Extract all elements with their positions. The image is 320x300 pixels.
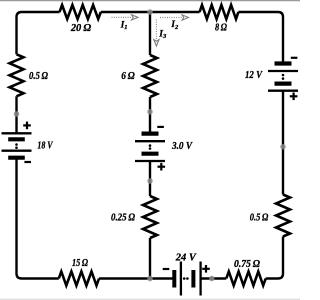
svg-text:0.5 Ω: 0.5 Ω (29, 70, 49, 82)
current arrow I2 (160, 15, 189, 20)
wire middle between 6-ohm and 3V battery (149, 97, 151, 132)
resistor 0.75 Ohm (226, 272, 265, 286)
node left above 18V (14, 111, 20, 117)
svg-text:8 Ω: 8 Ω (215, 22, 228, 34)
wire middle between 0.25-ohm and bottom junction (149, 238, 151, 279)
minus sign 18V (24, 161, 31, 163)
battery B3 12V (268, 64, 298, 91)
resistor 6 Ohm (143, 55, 157, 97)
wire top-right corner down to 12V battery (238, 12, 283, 63)
node bottom right of 24V (209, 276, 215, 282)
wire middle between 3V battery and 0.25-ohm (149, 161, 151, 196)
resistor 0.5 Ohm (right branch) (276, 195, 290, 237)
svg-text:3.0 V: 3.0 V (171, 140, 193, 152)
minus sign 3.0V (157, 126, 164, 128)
minus sign 24V (163, 268, 170, 270)
resistor 0.5 Ohm (left branch) (10, 54, 24, 96)
current arrow I3 (154, 20, 159, 47)
battery B2 3.0V (135, 134, 165, 161)
svg-text:24 V: 24 V (175, 252, 198, 264)
plus sign 3.0V (158, 163, 166, 171)
minus sign 12V (291, 57, 298, 59)
plus sign 24V (202, 265, 210, 273)
wire top-middle between 20-ohm and 8-ohm through node (101, 11, 200, 13)
svg-text:12 V: 12 V (245, 69, 263, 81)
wire right branch between 12V and 0.5-ohm (282, 91, 284, 195)
svg-text:0.75 Ω: 0.75 Ω (234, 258, 261, 270)
wire left branch below 18V to bottom-left corner (17, 158, 59, 279)
svg-text:15 Ω: 15 Ω (72, 257, 89, 269)
resistor 20 Ohm (60, 5, 101, 19)
svg-text:6 Ω: 6 Ω (121, 70, 135, 82)
wire middle branch: node down to 6-ohm (149, 12, 151, 55)
svg-text:18 V: 18 V (37, 140, 53, 152)
battery B4 24V (174, 262, 200, 296)
svg-text:0.5 Ω: 0.5 Ω (250, 212, 269, 224)
node bottom middle junction (147, 276, 153, 282)
node middle above 3V (147, 109, 153, 115)
node middle below 3V (147, 178, 153, 184)
plus sign 18V (23, 122, 31, 130)
wire top-left: left corner, top wire to 20-ohm (17, 12, 60, 54)
svg-text:0.25 Ω: 0.25 Ω (111, 212, 136, 224)
plus sign 12V (290, 93, 298, 101)
battery B1 18V (2, 133, 32, 157)
svg-text:20 Ω: 20 Ω (70, 22, 92, 34)
wire bottom-right corner up to 0.5-ohm right (266, 237, 283, 279)
node right below 12V (280, 144, 286, 150)
resistor 8 Ohm (200, 5, 239, 19)
wire bottom between 24V and 0.75-ohm (201, 277, 227, 279)
resistor 0.25 Ohm (143, 196, 157, 238)
wire bottom between 15-ohm and 24V battery (99, 277, 174, 279)
resistor 15 Ohm (59, 272, 99, 286)
node top junction (147, 9, 153, 15)
wire left branch between resistor and 18V battery (15, 96, 17, 133)
current arrow I1 (112, 15, 139, 20)
